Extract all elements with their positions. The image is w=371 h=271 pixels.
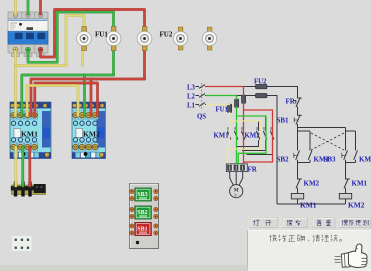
svg-text:KM2: KM2 [83,129,100,138]
wire phase verticals to KM contacts [229,113,231,132]
svg-text:KM1: KM1 [352,179,368,187]
wire KM2 return steps [237,140,259,147]
svg-text:FR: FR [248,165,258,173]
contactor KM1 main contacts [214,127,245,140]
hand cursor icon (thumb up fist) [334,244,367,268]
KM2 NC interlock contact (left branch) [296,163,320,194]
svg-text:QS: QS [197,114,206,121]
fuse FU1-2 [106,27,121,51]
wire yellow QS->KM1 t1 [14,51,17,116]
wire red QS->FU1-3 top [41,10,145,58]
wire L2 row [205,95,256,97]
wires FR -> motor [229,172,231,178]
contactor KM1 (physical) [10,102,51,159]
wire red KM1 bottom->XT [28,147,31,186]
wire L3 feed (red, top) [39,0,42,14]
mounting pad with screws (bottom-left) [12,236,32,251]
disconnect switch QS [196,83,207,121]
fuse FU2-a (schematic) [256,84,268,88]
overlay red L3 path [207,86,244,88]
wire FU2b -> left rail [267,96,277,205]
wire L1 feed (yellow, top) [14,0,17,14]
fuse FU1-b (schematic) [235,99,239,107]
overlay yellow L1 path [207,104,230,106]
fuse terminal nuts (over wires) [82,27,147,51]
left parallel pair SB2 / KM1 aux [277,131,330,163]
fuse FU1-3 [137,27,152,51]
wire red FU1-3 bottom->bus [143,48,146,80]
svg-text:SB2: SB2 [277,155,290,163]
svg-text:KM1: KM1 [214,133,230,140]
message panel [248,230,371,271]
fuse FU1-c (schematic) [242,95,246,103]
wire FU2a -> FR [267,87,298,97]
mechanical interlock (dashed X) [311,133,344,150]
svg-text:L1: L1 [187,102,196,109]
svg-text:KM1: KM1 [21,129,38,138]
overlay green L2 path [207,95,237,97]
contactor KM2 main contacts [245,127,274,140]
wire green KM1 bottom->XT [21,147,24,186]
coil KM1 [291,194,316,210]
svg-text:L2: L2 [187,93,196,100]
svg-text:SB1: SB1 [277,116,290,124]
button Answer (da an) [313,218,336,228]
terminal block XT [11,182,46,197]
wire red bus y79 [31,79,145,116]
SB1 NC pushbutton [277,113,302,128]
svg-text:FR: FR [286,97,296,105]
fuse FU1-1 [77,27,92,51]
KM1 NC interlock contact (right branch) [344,163,368,194]
wire L2 feed (green, top) [27,0,30,14]
svg-text:SB3: SB3 [324,155,337,163]
coil KM2 [339,194,364,210]
wire yellow KM1 bottom->XT [14,147,17,186]
wire L1 row [205,104,230,106]
svg-text:3~: 3~ [234,192,239,197]
svg-text:KM2: KM2 [359,155,371,163]
fuse FU2-2 [202,27,216,50]
button Save (bao cun) [283,218,308,228]
svg-text:L3: L3 [187,84,196,91]
thermal relay FR (heaters) [226,164,257,174]
wire yellow QS->FU1-1 top [16,16,85,66]
button Hints (cao zuo ti shi) [340,218,371,228]
bottom edge band [0,266,248,271]
toolbar strip [248,216,371,230]
svg-text:FU1: FU1 [216,107,229,114]
contactor KM2 (physical) [72,102,106,159]
wire bottom return bus [277,203,346,205]
wire yellow FU1-1 bottom->bus [81,48,84,66]
wire KM2 jumper feeds (navy under overlay) [230,121,259,131]
wire green riser KM2 [83,75,86,116]
wire green bus y75 KM1/KM2 [22,75,114,116]
FR NC contact (control) [286,97,302,113]
button Open (da kai) [251,218,278,228]
wire green FU1-2 bottom->bus [112,48,115,76]
wire red riser KM2 a [90,79,93,116]
fuse FU2-b (schematic) [256,93,268,97]
circuit breaker QS (3-pole) [8,12,48,57]
motor M 3~ [230,185,243,198]
message text: wiring correct, please continue [270,235,342,242]
svg-text:FU1: FU1 [95,31,108,39]
wire green QS->FU1-2 top [28,12,114,62]
svg-text:KM2: KM2 [348,200,365,209]
svg-text:FU2: FU2 [160,31,173,39]
svg-text:KM1: KM1 [300,200,317,209]
control branch split [298,127,346,129]
push-button station SB1/SB2/SB3 [130,184,159,249]
wire red bus y83 KM1-KM2 [35,83,98,116]
svg-text:KM2: KM2 [304,179,320,187]
fuse FU1-a (schematic) [228,104,232,112]
fuse FU2-1 [173,27,187,50]
wire L3 row [205,86,256,88]
wire yellow bus y85.5 KM1-KM2 [27,86,78,116]
right parallel pair SB3 / KM2 aux [324,131,371,163]
